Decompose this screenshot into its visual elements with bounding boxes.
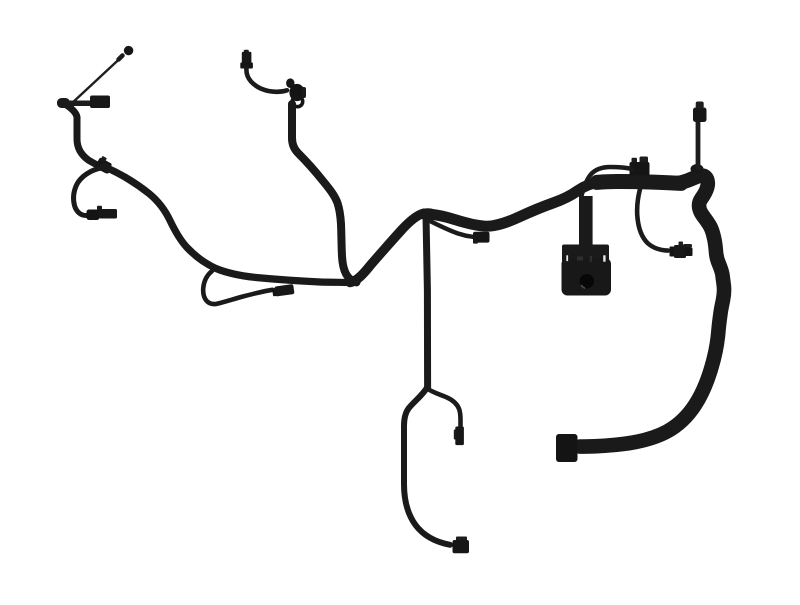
connector F side pin [683, 244, 692, 248]
wire: U branch to connector F [637, 189, 668, 251]
connector B collar [87, 210, 100, 221]
wire: center vertical drop [426, 216, 428, 388]
wire: hairpin branch [203, 271, 272, 304]
rod taper [119, 56, 123, 60]
connector A neck [66, 101, 92, 107]
box lower [562, 258, 612, 296]
wire: thin wire arc over the bend to top clip [582, 167, 633, 196]
connector D nub [454, 430, 457, 440]
connector C block (top middle, vertical) [244, 50, 249, 54]
wire: elbow and corrugated cable to terminal [580, 176, 724, 447]
connector B tab [97, 206, 102, 211]
wire: fork right branch to connector D [428, 389, 461, 428]
wire: thin wire from junction to clip (visible part) [430, 221, 473, 237]
box hole rim highlight [582, 286, 585, 289]
clip on top run [630, 157, 650, 176]
clip on thin wire [473, 232, 490, 244]
ball tip [124, 46, 133, 55]
connector F body [674, 245, 686, 258]
connector F top pin [679, 242, 684, 247]
connector D block [455, 427, 464, 446]
connector A block [90, 96, 110, 109]
wire: main trunk left section [104, 167, 350, 283]
antenna rod right [696, 122, 701, 168]
connector C flare [240, 63, 253, 69]
box slit right [603, 255, 605, 261]
wire: drop lower section to connector E [404, 387, 450, 545]
box upper [562, 245, 609, 271]
wire: S-cable descending from grommet [292, 104, 357, 282]
grommet cluster [286, 78, 306, 106]
wire: trunk top run [597, 181, 681, 183]
connector B block [99, 209, 117, 219]
wire: upsweep from merge into junction peak [350, 213, 431, 283]
wire: right trunk (junction to bend) [424, 182, 600, 226]
box slit left [566, 255, 568, 261]
wire: loop branch to connector B [74, 168, 101, 215]
rod knot at elbow [691, 164, 704, 174]
terminal block G [556, 434, 578, 462]
antenna cap [693, 108, 707, 123]
hairpin end connector [272, 284, 295, 297]
box hole [580, 274, 594, 288]
connector F collar [670, 247, 675, 257]
clip on trunk (left) [95, 155, 114, 174]
wire: from connector A down to clip [67, 105, 108, 170]
wire: dipstick rod [71, 58, 121, 105]
box stub [579, 196, 593, 248]
box marks [577, 257, 583, 261]
connector A cap (left end of bar) [57, 98, 70, 108]
connector E tab [456, 537, 467, 542]
connector E block [453, 540, 470, 553]
antenna knob [696, 102, 704, 109]
wire: connector C to grommet [246, 68, 287, 92]
connector F cap [685, 248, 693, 257]
